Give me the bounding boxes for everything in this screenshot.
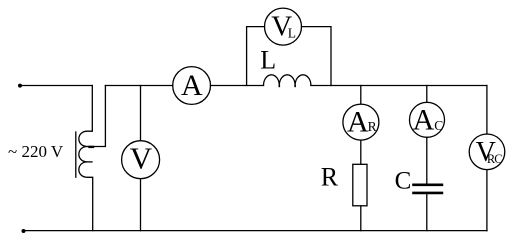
wire top-left from terminal [20, 85, 92, 87]
svg-text:R: R [368, 119, 377, 134]
wire bottom rail [24, 230, 488, 232]
ammeter AR [343, 104, 379, 140]
wire VL loop left side [247, 27, 265, 86]
terminal dot top-left [18, 84, 22, 88]
tap junction thick mark [90, 146, 94, 148]
svg-text:L: L [260, 45, 276, 74]
svg-text:V: V [130, 140, 153, 175]
svg-text:A: A [181, 69, 203, 102]
resistor R [353, 164, 367, 206]
wire VRC branch top from rail corner [486, 86, 488, 135]
svg-text:RC: RC [487, 152, 502, 166]
wire voltmeter V branch bottom [140, 179, 142, 231]
capacitor C top plate [414, 184, 442, 187]
voltmeter V [122, 141, 160, 179]
top rail ammeter A to inductor L [211, 85, 264, 87]
svg-text:C: C [434, 118, 443, 133]
inductor L [264, 75, 311, 86]
capacitor C bottom plate [414, 192, 442, 195]
wire ammeter AR branch top [360, 86, 362, 105]
top rail tap to voltmeter V junction to ammeter A [105, 85, 172, 87]
wire VL loop right side [302, 27, 332, 86]
top rail inductor L to right corner [311, 85, 487, 87]
wire ammeter AC to capacitor C [426, 137, 428, 183]
svg-text:A: A [413, 104, 435, 137]
autotransformer T1 winding with top lead [79, 86, 93, 231]
wire VRC to bottom rail [486, 170, 488, 231]
svg-text:A: A [347, 105, 369, 138]
autotransformer middle loop tick [87, 161, 92, 163]
svg-text:C: C [395, 167, 412, 194]
terminal dot bottom-left [22, 229, 26, 233]
svg-text:R: R [321, 162, 339, 191]
voltmeter VL [265, 8, 302, 45]
ammeter A [173, 67, 211, 105]
voltmeter VRC [469, 134, 505, 170]
autotransformer core bar [75, 132, 77, 177]
wire ammeter AC branch top [426, 86, 428, 103]
wire ammeter AR to resistor R [360, 140, 362, 164]
svg-text:L: L [288, 25, 296, 40]
autotransformer tap wire to top rail [87, 86, 105, 147]
wire capacitor C to bottom rail [426, 194, 428, 230]
svg-text:~ 220 V: ~ 220 V [8, 142, 64, 161]
wire resistor R to bottom rail [360, 206, 362, 231]
wire voltmeter V branch top [140, 86, 142, 141]
ammeter AC [410, 102, 445, 137]
